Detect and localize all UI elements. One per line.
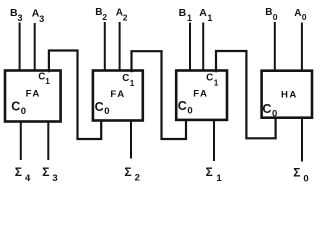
label HA bit0	[281, 89, 298, 100]
wire B3 input	[19, 23, 21, 71]
svg-text:0: 0	[303, 173, 308, 184]
svg-text:Σ: Σ	[15, 165, 22, 179]
svg-text:1: 1	[216, 173, 222, 184]
full adder FA bit3 box	[5, 71, 61, 122]
svg-text:C: C	[262, 102, 271, 116]
svg-text:1: 1	[45, 77, 50, 86]
wire A1 input	[202, 23, 204, 71]
wire A2 input	[119, 22, 121, 70]
pin label C0 of FA bit2	[95, 100, 110, 117]
wire carry out C0 of FA bit3 to sum4	[20, 122, 22, 161]
node B2	[95, 7, 107, 22]
svg-text:4: 4	[25, 173, 31, 184]
node Sigma0	[293, 166, 308, 185]
pin label C0 of FA bit1	[178, 99, 193, 116]
svg-text:C: C	[178, 99, 187, 113]
svg-text:0: 0	[187, 105, 192, 116]
pin label C1 of FA bit3	[38, 72, 50, 87]
wire A3 input	[34, 23, 36, 70]
svg-text:0: 0	[302, 12, 307, 22]
svg-text:B: B	[265, 7, 272, 18]
svg-text:C: C	[206, 73, 213, 84]
svg-text:2: 2	[135, 173, 140, 184]
svg-text:Σ: Σ	[124, 165, 131, 179]
wire B1 input	[189, 23, 191, 71]
wire sum output FA bit1	[213, 120, 215, 161]
pin label C1 of FA bit2	[122, 73, 135, 88]
wire carry C0 of FA bit2 to C1 of FA bit3	[49, 51, 101, 140]
wire sum output HA bit0	[301, 118, 303, 162]
full adder FA bit2 box	[93, 71, 143, 121]
node B0	[265, 7, 278, 22]
node B3	[10, 7, 23, 23]
node A1	[199, 7, 212, 23]
wire B2 input	[104, 22, 106, 70]
svg-text:0: 0	[21, 106, 26, 117]
full adder FA bit1 box	[176, 71, 227, 120]
node A0	[294, 8, 307, 22]
svg-text:Σ: Σ	[206, 165, 213, 179]
node Sigma2	[124, 165, 139, 184]
node A2	[116, 8, 128, 23]
svg-text:2: 2	[102, 12, 107, 22]
node A3	[32, 8, 44, 25]
svg-text:3: 3	[52, 173, 57, 184]
svg-text:0: 0	[104, 106, 109, 117]
pin label C1 of FA bit1	[206, 73, 219, 88]
svg-text:HA: HA	[281, 89, 298, 100]
svg-text:FA: FA	[26, 89, 41, 100]
svg-text:1: 1	[187, 13, 192, 23]
svg-text:1: 1	[207, 13, 212, 23]
svg-text:C: C	[11, 100, 20, 114]
svg-text:FA: FA	[110, 89, 125, 100]
svg-text:FA: FA	[193, 88, 208, 99]
svg-text:A: A	[294, 8, 301, 19]
svg-text:C: C	[122, 73, 129, 84]
wire A0 input	[301, 23, 303, 71]
node Sigma4	[15, 165, 31, 184]
svg-text:Σ: Σ	[42, 165, 49, 179]
half adder HA bit0 box	[262, 71, 312, 118]
node Sigma1	[206, 165, 223, 184]
svg-text:C: C	[95, 100, 104, 114]
wire B0 input	[274, 22, 276, 70]
label FA bit2	[110, 89, 125, 100]
svg-text:1: 1	[214, 79, 219, 88]
wire carry C0 of FA bit1 to C1 of FA bit2	[132, 51, 187, 139]
node B1	[179, 7, 192, 23]
svg-text:A: A	[199, 7, 207, 19]
pin label C0 of HA bit0	[262, 102, 277, 119]
svg-text:1: 1	[130, 79, 135, 88]
svg-text:B: B	[179, 7, 187, 19]
node Sigma3	[42, 165, 57, 184]
svg-text:Σ: Σ	[293, 166, 300, 180]
label FA bit1	[193, 88, 208, 99]
label FA bit3	[26, 89, 41, 100]
svg-text:3: 3	[39, 14, 44, 24]
svg-text:2: 2	[123, 12, 128, 22]
pin label C0 of FA bit3	[11, 100, 26, 117]
wire sum output FA bit3	[47, 122, 49, 161]
wire carry C0 of HA bit0 to C1 of FA bit1	[216, 51, 276, 138]
svg-text:3: 3	[18, 13, 23, 23]
wire sum output FA bit2	[130, 121, 132, 159]
svg-text:0: 0	[273, 12, 278, 22]
